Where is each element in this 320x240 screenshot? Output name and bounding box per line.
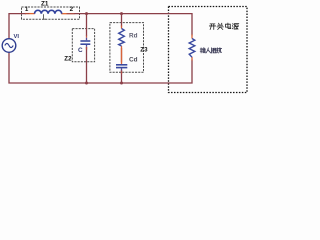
- svg-text:Cd: Cd: [129, 57, 138, 64]
- svg-text:C: C: [78, 47, 83, 54]
- svg-text:2: 2: [70, 6, 74, 13]
- svg-text:1: 1: [25, 6, 29, 13]
- svg-text:Z1: Z1: [41, 0, 49, 7]
- svg-text:Rd: Rd: [129, 33, 138, 40]
- svg-text:Z2: Z2: [64, 55, 72, 62]
- svg-text:VI: VI: [14, 34, 20, 40]
- svg-text:Z3: Z3: [140, 47, 148, 54]
